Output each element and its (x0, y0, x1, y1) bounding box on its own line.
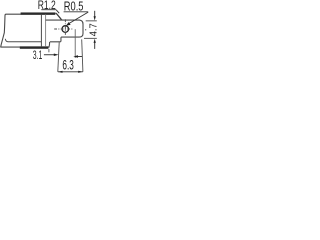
svg-text:R1.2: R1.2 (38, 0, 56, 12)
svg-text:R0.5: R0.5 (64, 0, 84, 14)
svg-text:6.3: 6.3 (62, 56, 74, 72)
svg-text:3.1: 3.1 (33, 48, 43, 62)
svg-text:4.7: 4.7 (88, 23, 99, 37)
